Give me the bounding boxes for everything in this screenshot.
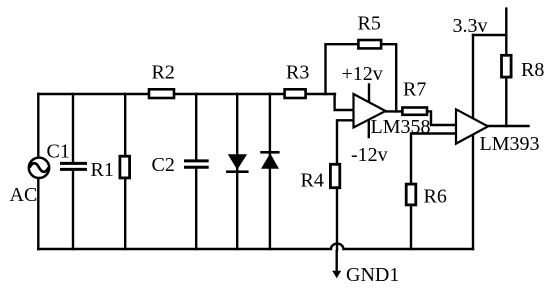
wire: R1 branch [124, 94, 126, 249]
wire: bottom rail [38, 244, 473, 249]
svg-text:R2: R2 [152, 62, 175, 84]
svg-text:AC: AC [10, 184, 38, 206]
svg-text:C2: C2 [152, 154, 175, 176]
svg-text:-12v: -12v [351, 144, 388, 166]
wire: op-amp output [386, 110, 404, 112]
svg-text:GND1: GND1 [346, 264, 399, 286]
wire: R7 to comparator step [427, 111, 456, 125]
source AC [29, 158, 49, 178]
svg-text:R5: R5 [358, 13, 381, 35]
ground GND1 [332, 250, 341, 278]
svg-text:3.3v: 3.3v [453, 15, 488, 37]
svg-text:R3: R3 [286, 62, 309, 84]
wire: C2 branch [195, 94, 197, 249]
svg-text:R8: R8 [521, 59, 544, 81]
svg-text:C1: C1 [47, 141, 70, 163]
svg-text:LM358: LM358 [371, 116, 431, 138]
svg-text:R6: R6 [424, 186, 447, 208]
svg-text:LM393: LM393 [480, 133, 540, 155]
wire: R8 branch [505, 35, 507, 126]
wire: C1 branch [72, 94, 74, 249]
resistor R8 [502, 55, 512, 77]
svg-text:R7: R7 [403, 79, 426, 101]
wire: left rail [37, 94, 39, 249]
resistor R7 [402, 108, 427, 115]
wire: non-inverting input [337, 120, 354, 165]
wire: comparator output [488, 125, 529, 127]
capacitor C2 [184, 161, 209, 167]
capacitor C1 [60, 163, 87, 169]
power pin +12v op-amp [368, 85, 370, 102]
resistor R6 [406, 184, 416, 205]
resistor R1 [120, 156, 130, 178]
resistor R5 [358, 40, 381, 48]
wire: inverting input step [335, 94, 354, 110]
resistor R4 [330, 164, 339, 187]
comparator U2 LM393 [456, 109, 488, 143]
svg-text:R1: R1 [91, 159, 114, 181]
wire: feedback loop [326, 44, 397, 111]
diode D1 [226, 154, 249, 173]
resistor R3 [285, 89, 306, 98]
wire: 3.3v rail [473, 9, 506, 35]
power pin -12v op-amp [368, 121, 370, 138]
op-amp U1 LM358 [354, 94, 386, 128]
resistor R2 [149, 89, 174, 98]
wire: R4 to ground node [336, 188, 338, 251]
svg-text:+12v: +12v [342, 63, 383, 85]
power pin LM393 top [472, 35, 474, 117]
diode D2 [260, 151, 279, 169]
wire: D1 branch [236, 94, 238, 249]
power pin LM393 bottom [472, 135, 474, 249]
wire: R6 to comparator input [411, 134, 456, 185]
wire: top rail [38, 93, 335, 95]
wire: D2 branch [269, 94, 271, 249]
wire: R6 bottom [410, 205, 412, 250]
svg-text:R4: R4 [301, 170, 324, 192]
